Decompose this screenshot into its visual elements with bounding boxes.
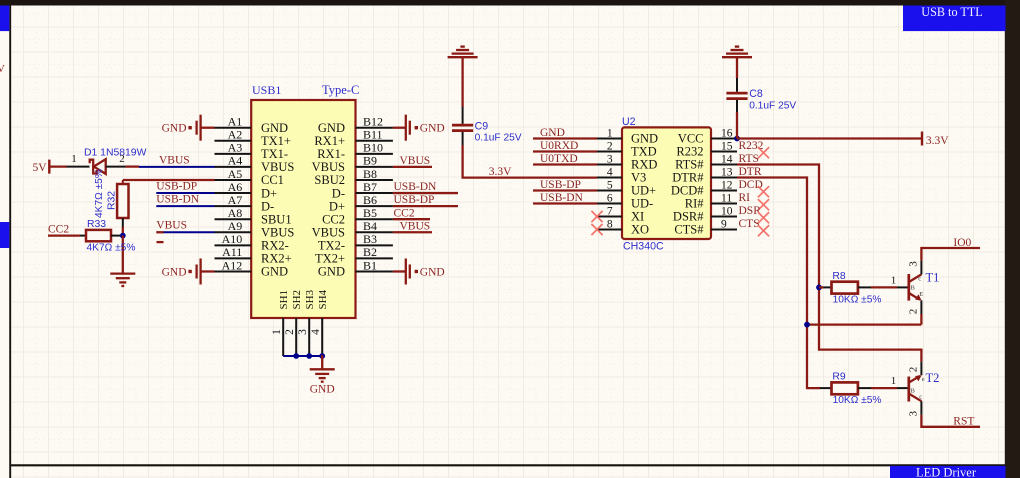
svg-text:DCD#: DCD#: [671, 184, 704, 198]
svg-text:A10: A10: [222, 232, 243, 246]
svg-text:E: E: [919, 291, 923, 298]
svg-text:B9: B9: [363, 154, 377, 168]
svg-text:T1: T1: [926, 271, 940, 285]
svg-text:7: 7: [607, 205, 613, 217]
svg-text:B6: B6: [363, 193, 377, 207]
svg-text:CH340C: CH340C: [623, 241, 664, 253]
U2 pin 6: [597, 192, 653, 210]
USB1 pin A3: [215, 141, 289, 161]
svg-text:VBUS: VBUS: [159, 154, 190, 166]
svg-text:USB-DN: USB-DN: [540, 192, 584, 204]
U2 pin 12: [671, 179, 737, 197]
svg-text:RX2-: RX2-: [261, 239, 289, 253]
junction DTR: [804, 322, 810, 328]
wire USB-DN B-side: [393, 192, 458, 194]
svg-text:B12: B12: [363, 115, 383, 129]
wire CC2 B-side: [393, 218, 430, 220]
svg-text:C9: C9: [475, 120, 489, 132]
svg-text:IO0: IO0: [953, 237, 971, 249]
C8 bottom pin: [736, 100, 738, 112]
svg-text:GND: GND: [162, 266, 187, 278]
svg-text:GND: GND: [631, 132, 658, 146]
R33 right pin: [111, 235, 123, 237]
svg-text:TX2+: TX2+: [315, 252, 345, 266]
title box LED Driver: [890, 466, 1006, 478]
capacitor C8: [726, 93, 747, 99]
junction shield 4: [319, 353, 325, 359]
USB1 pin A6: [215, 180, 278, 200]
svg-text:GND: GND: [420, 266, 445, 278]
svg-text:A2: A2: [228, 128, 243, 142]
ground R33: [110, 274, 135, 286]
U2 pin 10: [673, 205, 737, 223]
USB1 pin B2: [315, 245, 393, 265]
USB1 pin A12: [215, 258, 289, 278]
USB1 shield pin SH4: [310, 289, 329, 356]
svg-text:12: 12: [721, 179, 733, 191]
wire DTR to T1 emitter: [807, 323, 921, 325]
R33 left pin: [80, 235, 86, 237]
wire C9 to 3.3V net: [463, 145, 597, 178]
wire VBUS (navy) to pin A9: [164, 231, 215, 233]
wire CC2 to R33: [48, 234, 80, 236]
ground flag GND (left): [162, 258, 215, 284]
USB1 pin B3: [318, 232, 393, 252]
USB1 pin A11: [215, 245, 292, 265]
U2 pin 11: [685, 192, 737, 210]
D1 pin 2: [106, 166, 126, 168]
svg-text:SBU1: SBU1: [261, 212, 292, 226]
sheet left border line: [9, 6, 11, 478]
ground flag GND (left): [162, 115, 215, 141]
T1 base pin 1: [897, 286, 908, 288]
USB1 shield pin SH3: [297, 289, 316, 356]
svg-text:LED Driver: LED Driver: [916, 466, 977, 478]
USB1 pin B7: [332, 180, 393, 200]
svg-text:RTS#: RTS#: [675, 158, 704, 172]
USB1 shield pin SH2: [284, 290, 303, 356]
section divider line: [10, 464, 1005, 466]
svg-text:3: 3: [907, 411, 919, 417]
svg-text:VBUS: VBUS: [400, 155, 431, 167]
svg-text:V: V: [0, 63, 5, 75]
USB1 pin A8: [215, 206, 292, 226]
IC U2 body: [622, 127, 711, 239]
svg-text:0.1uF 25V: 0.1uF 25V: [475, 132, 522, 143]
partial blue box left edge: [0, 222, 9, 248]
svg-text:T2: T2: [926, 371, 940, 385]
svg-text:VBUS: VBUS: [261, 225, 294, 239]
svg-text:2: 2: [907, 367, 919, 373]
R8 right pin: [858, 286, 871, 288]
U2 pin 1: [597, 127, 658, 145]
svg-text:15: 15: [721, 140, 733, 152]
svg-text:B: B: [911, 387, 916, 394]
wire USB-DN (navy) to pin A7: [156, 205, 214, 207]
svg-text:DTR#: DTR#: [672, 171, 704, 185]
svg-text:CC2: CC2: [322, 212, 345, 226]
wire GND to U2: [533, 137, 597, 139]
svg-text:10KΩ ±5%: 10KΩ ±5%: [833, 395, 882, 406]
svg-text:USB-DN: USB-DN: [156, 193, 200, 205]
T1 collector pin 3: [907, 261, 921, 275]
svg-text:D+: D+: [261, 186, 277, 200]
wire 5V to D1: [49, 165, 66, 167]
svg-text:VBUS: VBUS: [312, 225, 345, 239]
svg-text:B7: B7: [363, 180, 377, 194]
svg-text:A9: A9: [228, 219, 243, 233]
partial blue box top-left: [0, 6, 9, 32]
no-connect X RI: [758, 199, 769, 210]
svg-text:DCD: DCD: [739, 179, 763, 191]
svg-text:D-: D-: [261, 199, 274, 213]
svg-text:B10: B10: [363, 141, 383, 155]
USB1 pin B5: [322, 206, 393, 226]
svg-text:TX2-: TX2-: [318, 239, 345, 253]
diode D1 1N5819W: [90, 159, 106, 174]
USB1 pin B6: [329, 193, 393, 213]
svg-text:6: 6: [607, 192, 613, 204]
USB1 pin B11: [314, 128, 393, 148]
svg-text:14: 14: [721, 153, 733, 165]
svg-text:1: 1: [271, 329, 283, 335]
svg-text:TX1-: TX1-: [261, 147, 288, 161]
svg-text:2: 2: [607, 140, 613, 152]
ground flag GND (right): [393, 115, 445, 141]
USB1 pin B9: [312, 154, 393, 174]
svg-text:XI: XI: [631, 210, 644, 224]
svg-text:B5: B5: [363, 206, 377, 220]
right black bar: [1005, 0, 1020, 478]
svg-text:A1: A1: [228, 115, 243, 129]
svg-text:B2: B2: [363, 245, 377, 259]
svg-text:R33: R33: [87, 219, 106, 230]
wire shield to ground: [321, 355, 323, 369]
wire U0RXD to U2: [533, 150, 597, 152]
svg-text:USB1: USB1: [252, 83, 281, 97]
svg-text:c: c: [918, 276, 921, 283]
capacitor C9: [452, 125, 473, 131]
svg-text:UD-: UD-: [631, 197, 653, 211]
svg-text:3: 3: [907, 261, 919, 267]
svg-text:V3: V3: [631, 171, 646, 185]
svg-text:B3: B3: [363, 232, 377, 246]
svg-text:SH4: SH4: [317, 289, 329, 309]
connector USB1 body: [251, 100, 355, 318]
port 5V: [32, 160, 49, 174]
svg-text:e: e: [922, 376, 925, 383]
junction shield 3: [306, 353, 312, 359]
svg-text:CC1: CC1: [261, 173, 284, 187]
wire T1 collector to IO0: [921, 248, 980, 261]
USB1 pin B8: [314, 167, 392, 187]
svg-text:10: 10: [721, 205, 733, 217]
svg-text:VBUS: VBUS: [261, 160, 294, 174]
svg-text:2: 2: [119, 153, 125, 165]
svg-text:USB-DN: USB-DN: [394, 181, 438, 193]
USB1 pin A2: [215, 128, 291, 148]
svg-text:RST: RST: [953, 416, 974, 428]
svg-text:RI: RI: [739, 192, 751, 204]
wire junction to ground: [122, 236, 124, 274]
svg-text:3: 3: [607, 153, 613, 165]
svg-text:CTS#: CTS#: [674, 223, 704, 237]
U2 pin 13: [672, 166, 737, 184]
svg-text:13: 13: [721, 166, 733, 178]
no-connect X pin 8: [591, 224, 602, 235]
wire USB-DN to U2: [533, 202, 597, 204]
svg-text:C8: C8: [749, 88, 763, 100]
svg-text:GND: GND: [162, 123, 187, 135]
svg-text:GND: GND: [261, 121, 288, 135]
wire T1 emitter down: [920, 314, 922, 325]
svg-text:A4: A4: [228, 154, 243, 168]
svg-text:Type-C: Type-C: [322, 83, 359, 97]
svg-text:SH3: SH3: [304, 289, 316, 309]
svg-text:VCC: VCC: [678, 132, 704, 146]
svg-text:1: 1: [71, 153, 77, 165]
resistor R8: [832, 282, 858, 294]
svg-text:GND: GND: [540, 127, 565, 139]
T2 emitter pin 3: [907, 401, 921, 416]
svg-text:A7: A7: [228, 193, 243, 207]
U2 pin 15: [676, 140, 737, 158]
title box USB to TTL: [903, 6, 1006, 32]
wire ground to C8: [736, 57, 738, 78]
wire stub A10: [157, 241, 164, 243]
svg-text:VBUS: VBUS: [400, 220, 431, 232]
svg-text:RX1-: RX1-: [317, 147, 345, 161]
svg-text:10KΩ ±5%: 10KΩ ±5%: [833, 294, 882, 305]
U2 pin 7: [597, 205, 644, 223]
svg-text:TX1+: TX1+: [261, 134, 291, 148]
svg-text:A3: A3: [228, 141, 243, 155]
svg-text:3.3V: 3.3V: [489, 166, 512, 178]
USB1 pin B1: [318, 258, 393, 278]
svg-text:B11: B11: [363, 128, 383, 142]
junction RTS/R8: [816, 285, 822, 291]
svg-text:GND: GND: [310, 384, 335, 396]
svg-text:RX2+: RX2+: [261, 252, 292, 266]
svg-text:4K7Ω ±5%: 4K7Ω ±5%: [94, 169, 105, 218]
svg-text:4: 4: [607, 166, 613, 178]
svg-text:B8: B8: [363, 167, 377, 181]
no-connect X pin 7: [591, 211, 602, 222]
svg-text:0.1uF 25V: 0.1uF 25V: [749, 101, 796, 112]
svg-text:VBUS: VBUS: [156, 219, 187, 231]
USB1 pin A9: [215, 219, 295, 239]
svg-text:DSR#: DSR#: [673, 210, 704, 224]
svg-text:B: B: [911, 284, 916, 291]
wire VBUS red stub A9: [156, 231, 163, 233]
top black bar: [0, 0, 1020, 6]
svg-text:DSR: DSR: [739, 205, 762, 217]
wire DTR to transistor network: [737, 178, 820, 389]
wire R9 to T2 base: [871, 387, 897, 389]
resistor R33: [86, 230, 111, 241]
svg-text:GND: GND: [318, 265, 345, 279]
svg-text:8: 8: [607, 218, 613, 230]
R9 left pin: [820, 387, 832, 389]
wire VBUS B-side: [393, 231, 432, 233]
svg-text:A8: A8: [228, 206, 243, 220]
wire RTS to T2 collector: [920, 349, 922, 362]
wire VCC to 3.3V port: [737, 137, 922, 139]
svg-text:USB-DP: USB-DP: [540, 179, 581, 191]
svg-text:SBU2: SBU2: [314, 173, 345, 187]
C9 top pin: [462, 107, 464, 124]
svg-text:D1 1N5819W: D1 1N5819W: [84, 147, 147, 158]
svg-text:VBUS: VBUS: [312, 160, 345, 174]
C8 top pin: [736, 78, 738, 92]
svg-text:3.3V: 3.3V: [926, 135, 949, 147]
resistor R32: [117, 184, 128, 218]
svg-text:GND: GND: [420, 123, 445, 135]
svg-text:U0RXD: U0RXD: [540, 140, 578, 152]
svg-text:9: 9: [721, 218, 727, 230]
svg-text:USB to TTL: USB to TTL: [921, 5, 982, 19]
svg-text:U0TXD: U0TXD: [540, 153, 578, 165]
svg-text:A12: A12: [222, 258, 243, 272]
svg-text:B1: B1: [363, 258, 377, 272]
transistor T1: [909, 274, 923, 301]
svg-text:1: 1: [891, 375, 897, 387]
wire USB-DP to U2: [533, 189, 597, 191]
svg-text:D-: D-: [332, 186, 345, 200]
USB1 pin B12: [318, 115, 393, 135]
U2 pin 2: [597, 140, 657, 158]
svg-text:4K7Ω ±5%: 4K7Ω ±5%: [87, 242, 136, 253]
svg-text:R9: R9: [832, 372, 846, 383]
D1 pin 1: [67, 166, 90, 168]
svg-text:SH2: SH2: [291, 290, 303, 310]
wire C8 to VCC: [736, 112, 738, 139]
svg-text:RTS: RTS: [739, 153, 759, 165]
junction VCC: [734, 136, 740, 142]
USB1 pin B4: [312, 219, 393, 239]
USB1 pin A5: [215, 167, 284, 187]
R32 bottom pin: [122, 218, 124, 227]
wire USB-DP (navy) to pin A6: [156, 192, 214, 194]
USB1 pin B10: [317, 141, 393, 161]
wire shield bus: [283, 355, 322, 357]
resistor R9: [832, 382, 858, 394]
svg-text:RX1+: RX1+: [314, 134, 345, 148]
R9 right pin: [858, 387, 871, 389]
U2 pin 16: [678, 127, 737, 145]
svg-text:1: 1: [607, 127, 613, 139]
svg-text:UD+: UD+: [631, 184, 656, 198]
wire R32 to junction: [122, 227, 124, 236]
svg-text:5: 5: [607, 179, 613, 191]
svg-text:U2: U2: [622, 116, 636, 128]
wire D1 to VBUS: [126, 165, 140, 167]
svg-text:11: 11: [721, 192, 732, 204]
svg-text:c: c: [919, 393, 922, 400]
T1 emitter pin 2: [907, 300, 921, 314]
ground (inverted) above C9: [448, 47, 478, 58]
svg-text:5V: 5V: [32, 162, 47, 174]
C9 bottom pin: [462, 132, 464, 145]
USB1 pin A10: [215, 232, 289, 252]
ground shield: [310, 369, 335, 381]
svg-text:B4: B4: [363, 219, 377, 233]
junction shield 2: [293, 353, 299, 359]
svg-text:XO: XO: [631, 223, 649, 237]
svg-text:4: 4: [310, 329, 322, 335]
ground (inverted) above C8: [722, 47, 752, 58]
no-connect X R232: [758, 147, 769, 158]
svg-text:A5: A5: [228, 167, 243, 181]
svg-text:A6: A6: [228, 180, 243, 194]
svg-text:2: 2: [907, 309, 919, 315]
U2 pin 4: [597, 166, 646, 184]
no-connect X DSR: [758, 212, 769, 223]
svg-text:GND: GND: [261, 265, 288, 279]
wire ground to C9: [461, 57, 463, 107]
wire USB-DP B-side: [393, 205, 458, 207]
no-connect X DCD: [758, 186, 769, 197]
ground flag GND (right): [393, 258, 445, 284]
svg-text:D+: D+: [329, 199, 345, 213]
U2 pin 14: [675, 153, 737, 171]
USB1 pin A7: [215, 193, 275, 213]
no-connect X CTS: [758, 225, 769, 236]
wire VBUS B-side: [393, 166, 432, 168]
junction R32/R33/GND: [120, 233, 126, 239]
wire T2 emitter to RST: [921, 415, 980, 427]
T2 base pin 1: [897, 387, 908, 389]
svg-text:R8: R8: [832, 271, 846, 282]
svg-text:CC2: CC2: [394, 207, 415, 219]
svg-text:16: 16: [721, 127, 733, 139]
USB1 pin A4: [215, 154, 295, 174]
svg-text:RXD: RXD: [631, 158, 657, 172]
svg-text:GND: GND: [318, 121, 345, 135]
svg-text:DTR: DTR: [739, 166, 762, 178]
wire U0TXD to U2: [533, 163, 597, 165]
svg-text:A11: A11: [222, 245, 242, 259]
port 3.3V: [922, 132, 949, 147]
wire RTS to transistor network: [737, 165, 921, 350]
USB1 pin A1: [215, 115, 289, 135]
U2 pin 8: [597, 218, 649, 236]
svg-text:USB-DP: USB-DP: [156, 180, 197, 192]
U2 pin 3: [597, 153, 657, 171]
wire R8 to T1 base: [871, 286, 897, 288]
svg-text:1: 1: [891, 274, 897, 286]
svg-text:CTS: CTS: [739, 218, 760, 230]
svg-text:3: 3: [297, 329, 309, 335]
svg-text:USB-DP: USB-DP: [394, 194, 435, 206]
svg-text:R232: R232: [676, 145, 703, 159]
svg-text:R32: R32: [107, 191, 118, 210]
T2 collector pin 2: [907, 362, 921, 376]
wire RTS junction to R8: [819, 286, 824, 288]
wire VBUS (navy) to pin A4: [139, 166, 215, 168]
svg-text:TXD: TXD: [631, 145, 657, 159]
svg-text:SH1: SH1: [278, 290, 290, 310]
svg-text:2: 2: [284, 329, 296, 335]
wire CC1 to R32: [123, 180, 215, 184]
R8 left pin: [824, 286, 832, 288]
USB1 shield pin SH1: [271, 290, 290, 356]
U2 pin 5: [597, 179, 656, 197]
U2 pin 9: [674, 218, 737, 236]
transistor T2: [909, 375, 925, 401]
svg-text:CC2: CC2: [48, 223, 69, 235]
svg-text:RI#: RI#: [685, 197, 705, 211]
